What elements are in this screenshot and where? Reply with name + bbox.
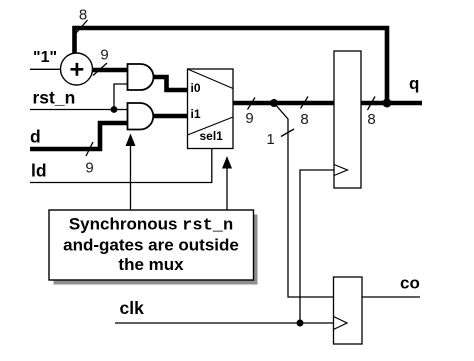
wire FF2 output co [362, 296, 420, 298]
and-gate G2 [128, 103, 154, 130]
flip-flop FF1 body [334, 51, 361, 188]
svg-text:co: co [400, 274, 420, 293]
svg-text:8: 8 [79, 7, 87, 24]
annotation box [49, 210, 254, 280]
annotation box shadow [54, 215, 258, 285]
svg-text:rst_n: rst_n [33, 88, 76, 108]
wire d to AND gate 2 [30, 123, 128, 149]
bus slash FF1 output [368, 97, 376, 111]
bus slash top-left [74, 20, 88, 36]
mux M1 top diagonal [188, 69, 234, 89]
svg-text:i1: i1 [191, 107, 201, 121]
wire adder output to AND gate 1 [93, 68, 129, 73]
wire FF1 output q [361, 101, 422, 106]
svg-text:and-gates are outside: and-gates are outside [63, 236, 239, 255]
wire lsb tap to FF2 data input [274, 103, 334, 297]
mux M1 body [188, 69, 234, 149]
and-gate G1 [128, 64, 154, 90]
mux M1 bottom diagonal [188, 117, 234, 135]
wire literal 1 to adder [30, 68, 61, 70]
wire clk branch to FF1 clock [300, 170, 334, 323]
bus slash lsb wire [281, 129, 294, 137]
svg-text:d: d [30, 127, 41, 147]
node junction q feedback [383, 99, 392, 108]
flip-flop FF1 clock triangle [334, 165, 348, 176]
flip-flop FF2 clock triangle [334, 317, 348, 330]
svg-text:8: 8 [367, 111, 375, 128]
svg-text:ld: ld [31, 161, 47, 181]
bus slash adder output [93, 63, 107, 76]
bus slash d wire [86, 142, 93, 156]
svg-text:9: 9 [245, 110, 253, 127]
wire mux output to flip-flop FF1 [233, 101, 334, 106]
svg-text:sel1: sel1 [200, 129, 224, 143]
annotation arrow to and-gates [130, 145, 132, 210]
bus slash before FF1 [301, 97, 309, 109]
svg-text:9: 9 [85, 160, 93, 177]
svg-text:i0: i0 [191, 81, 201, 95]
node junction on rst_n [111, 106, 118, 113]
annotation arrow to mux select [226, 167, 228, 210]
adder U1 (circle with plus) [61, 53, 93, 85]
svg-text:1: 1 [266, 131, 274, 148]
bus slash mux output [248, 98, 256, 110]
svg-text:q: q [409, 74, 419, 93]
wire ld to mux select [30, 149, 212, 183]
svg-text:Synchronous rst_n: Synchronous rst_n [69, 215, 233, 236]
node junction clk [297, 320, 304, 327]
svg-text:the mux: the mux [118, 255, 184, 274]
wire G1 output to mux i0 [154, 77, 189, 90]
wire clk to FF2 clock [115, 322, 334, 324]
wire rst_n to AND gate 2 [30, 109, 128, 111]
svg-text:clk: clk [120, 298, 145, 318]
node junction mux output [270, 99, 278, 107]
wire G2 output to mux i1 [153, 114, 188, 119]
svg-text:9: 9 [100, 47, 108, 64]
flip-flop FF2 body [334, 277, 363, 344]
wire rst_n branch to AND gate 1 [114, 84, 128, 110]
wire feedback bus q to adder (thick top loop) [75, 28, 388, 103]
svg-text:"1": "1" [33, 49, 57, 66]
svg-text:8: 8 [300, 111, 308, 128]
